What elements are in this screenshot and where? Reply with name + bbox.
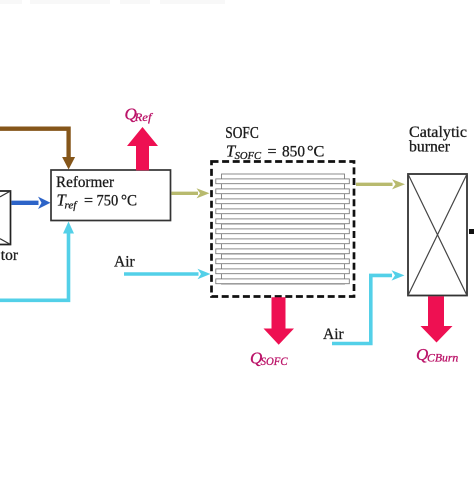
svg-text:=: = — [268, 144, 277, 161]
svg-text:burner: burner — [409, 139, 451, 156]
svg-text:=: = — [84, 193, 93, 210]
svg-text:Reformer: Reformer — [56, 174, 115, 191]
svg-text:ref: ref — [65, 200, 79, 212]
svg-text:SOFC: SOFC — [225, 123, 258, 142]
svg-text:Ref: Ref — [133, 112, 153, 124]
svg-text:SOFC: SOFC — [235, 150, 262, 162]
svg-text:750: 750 — [97, 193, 119, 210]
svg-text:850: 850 — [282, 144, 305, 161]
svg-text:Air: Air — [323, 326, 345, 343]
svg-text:°C: °C — [121, 193, 137, 210]
svg-text:Air: Air — [114, 253, 136, 270]
svg-text:SOFC: SOFC — [261, 356, 288, 368]
svg-text:tor: tor — [1, 247, 19, 264]
svg-text:°C: °C — [307, 144, 324, 161]
svg-text:CBurn: CBurn — [427, 353, 459, 365]
